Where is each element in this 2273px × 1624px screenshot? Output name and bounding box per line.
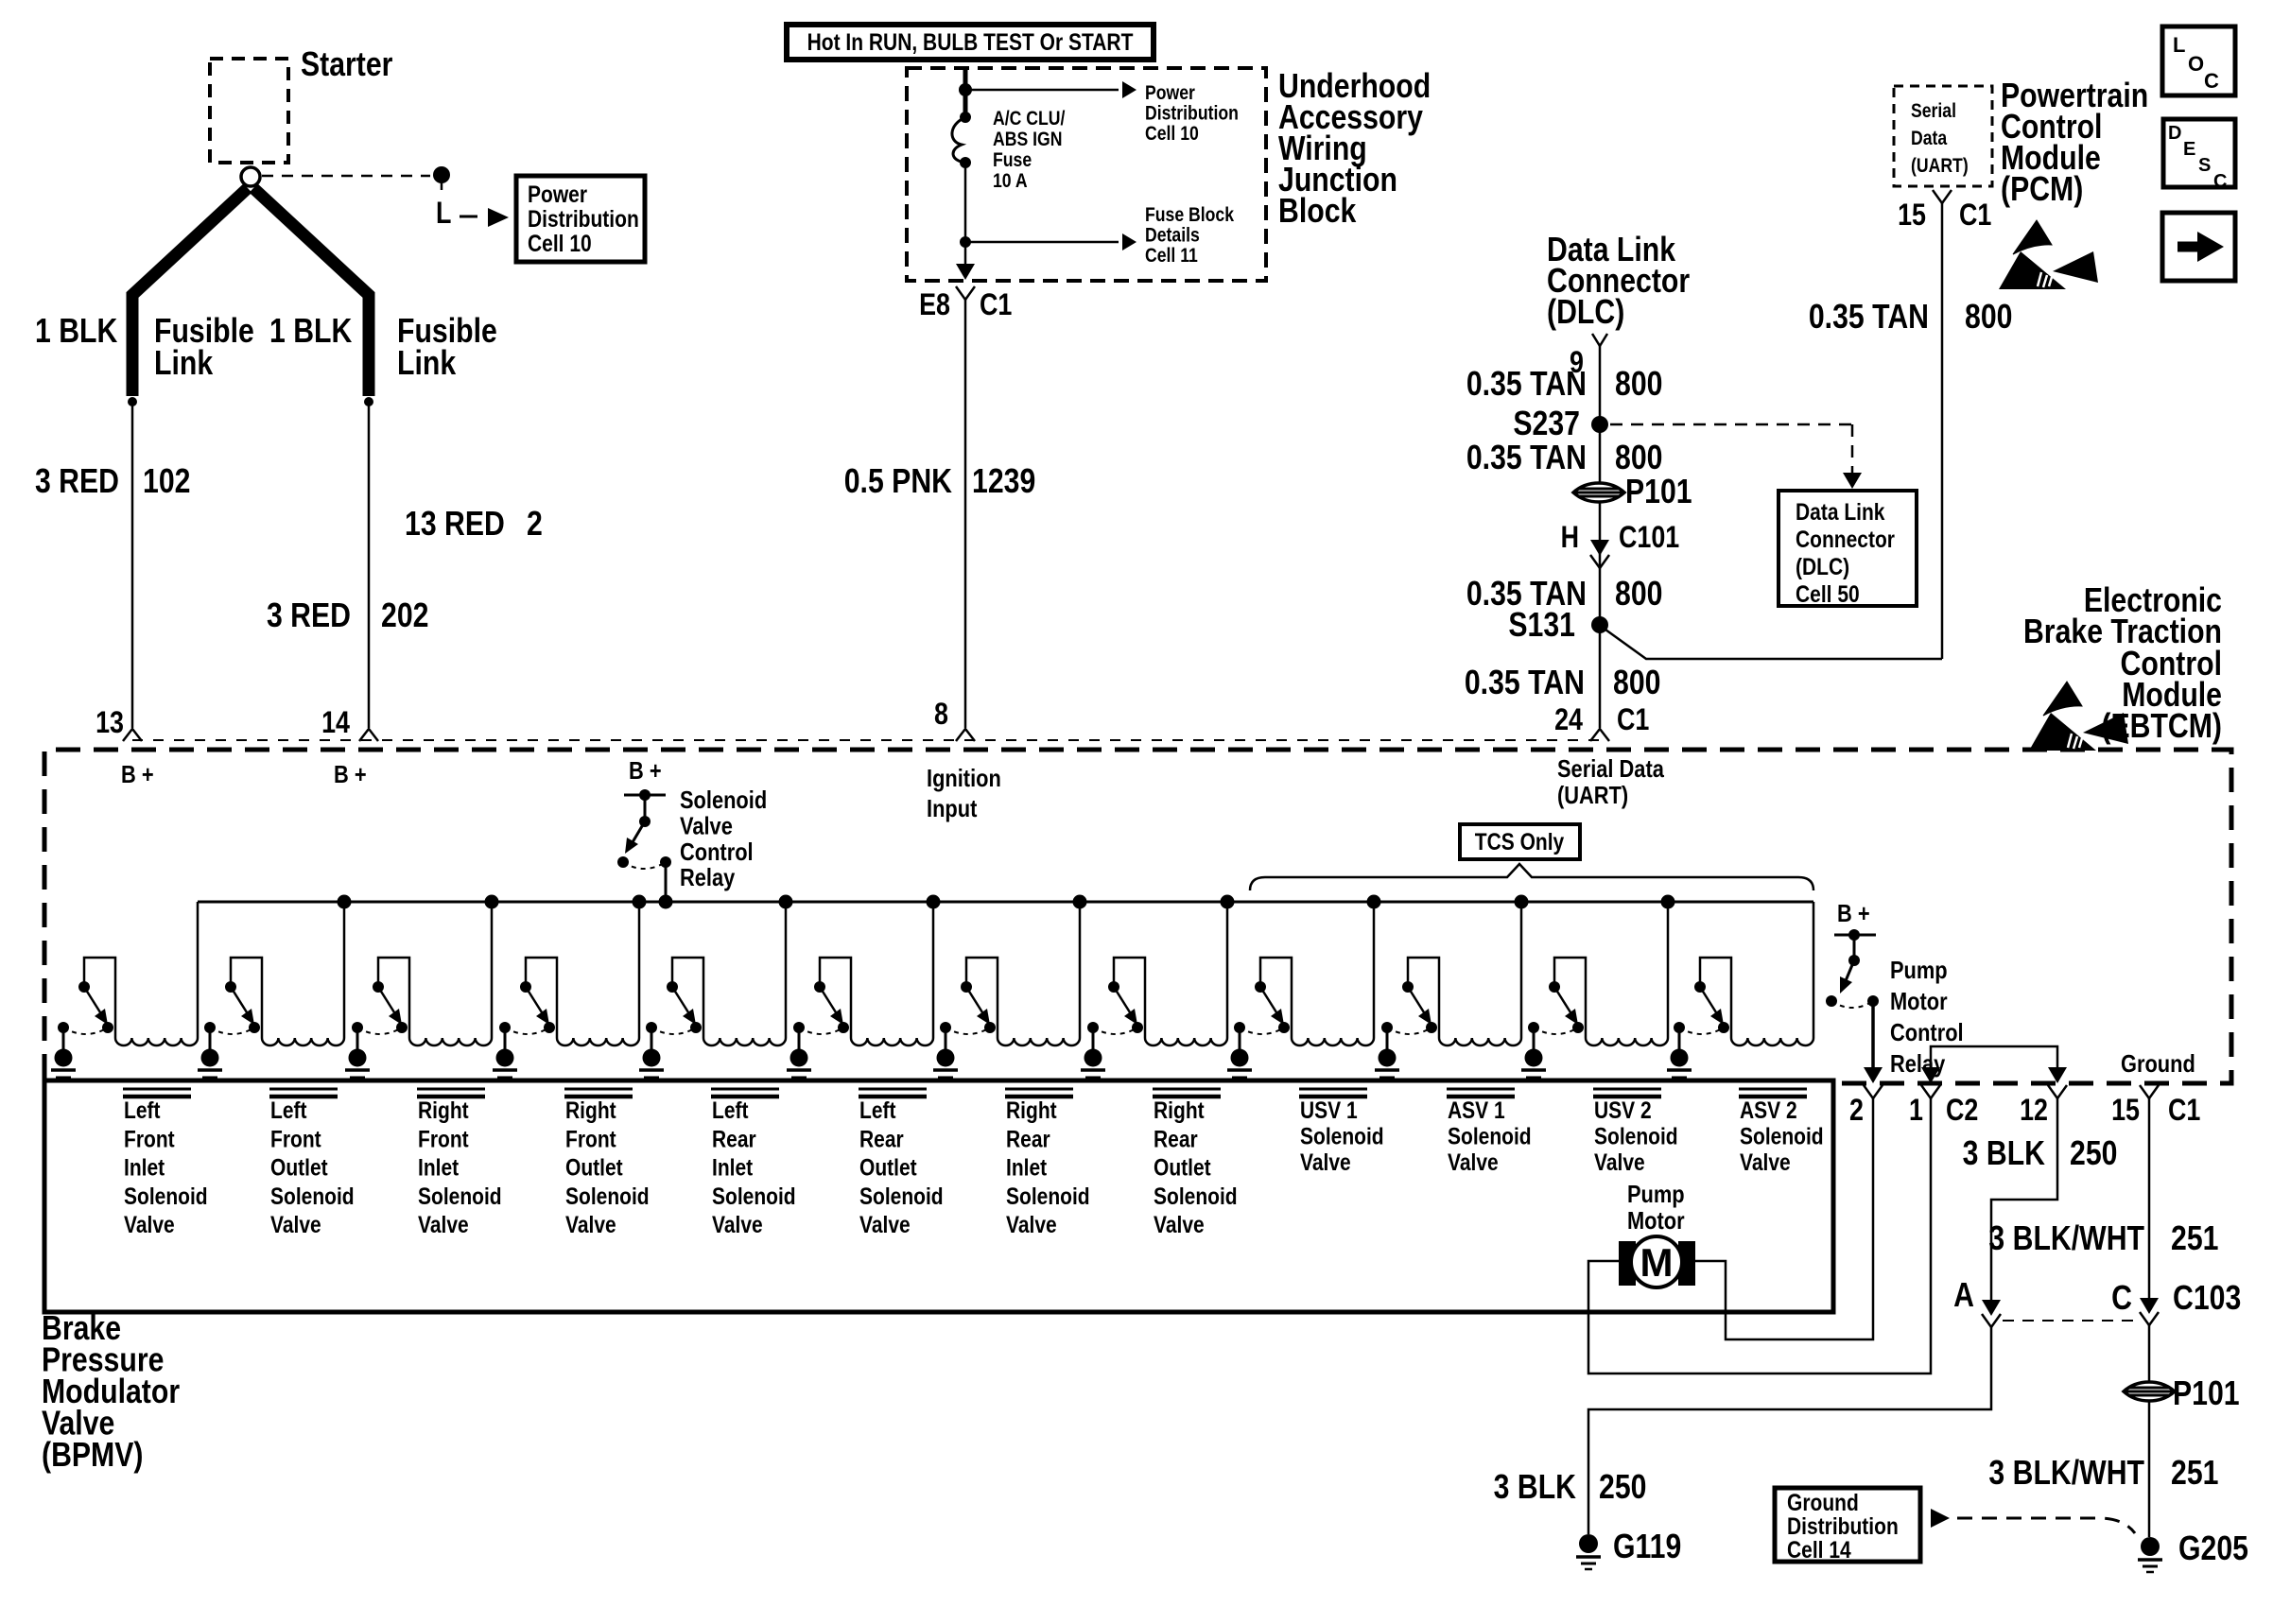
icon DESC bbox=[2163, 119, 2235, 192]
svg-text:Pump: Pump bbox=[1890, 957, 1948, 984]
svg-text:S131: S131 bbox=[1508, 607, 1575, 645]
svg-text:Solenoid: Solenoid bbox=[859, 1183, 944, 1209]
solenoid valve 5 (Left Rear Inlet) bbox=[639, 902, 786, 1078]
svg-text:1 BLK: 1 BLK bbox=[35, 313, 117, 351]
svg-text:3 BLK: 3 BLK bbox=[1494, 1469, 1576, 1507]
pin 15 C1 of PCM bbox=[1898, 190, 1991, 233]
terminal 8 (Ignition Input) bbox=[934, 698, 975, 741]
terminal 12 bbox=[2020, 1085, 2067, 1128]
svg-text:M: M bbox=[1640, 1240, 1674, 1285]
svg-text:0.35 TAN: 0.35 TAN bbox=[1466, 366, 1587, 404]
solenoid valve 12 (ASV 2) bbox=[1667, 902, 1813, 1078]
box Ground Distribution Cell 14 bbox=[1775, 1488, 1920, 1563]
wire 0.5 PNK 1239 bbox=[844, 300, 1036, 728]
solenoid valve 6 (Left Rear Outlet) bbox=[787, 902, 933, 1078]
svg-text:Hot In RUN, BULB TEST Or START: Hot In RUN, BULB TEST Or START bbox=[807, 28, 1134, 55]
svg-text:P101: P101 bbox=[1625, 474, 1692, 511]
svg-text:Solenoid: Solenoid bbox=[1154, 1183, 1238, 1209]
svg-text:15: 15 bbox=[1898, 199, 1926, 233]
svg-text:Data: Data bbox=[1911, 128, 1947, 150]
label Serial Data (UART) bbox=[1557, 755, 1664, 809]
svg-text:D: D bbox=[2168, 123, 2181, 144]
svg-text:Serial Data: Serial Data bbox=[1557, 755, 1664, 783]
svg-text:(DLC): (DLC) bbox=[1547, 294, 1624, 332]
svg-text:15: 15 bbox=[2111, 1094, 2140, 1128]
svg-text:Rear: Rear bbox=[859, 1126, 904, 1152]
terminal 2 bbox=[1849, 1085, 1883, 1128]
valve label ASV 1 Solenoid Valve bbox=[1447, 1089, 1532, 1175]
svg-text:C1: C1 bbox=[2168, 1094, 2200, 1128]
label 0.35 TAN 800 (S131-24) bbox=[1465, 665, 1661, 702]
svg-text:13: 13 bbox=[95, 706, 124, 740]
svg-text:ASV 2: ASV 2 bbox=[1740, 1097, 1797, 1123]
label B+ (terminal 13) bbox=[121, 761, 154, 788]
svg-text:B +: B + bbox=[629, 757, 662, 785]
svg-text:Solenoid: Solenoid bbox=[1594, 1123, 1678, 1149]
wire 0.35 TAN 800 (PCM serial data) bbox=[1809, 203, 2013, 659]
svg-text:Left: Left bbox=[270, 1097, 307, 1123]
connector A (C103) bbox=[1953, 1277, 2001, 1327]
svg-text:(UART): (UART) bbox=[1911, 155, 1969, 178]
svg-text:Input: Input bbox=[927, 795, 977, 822]
svg-text:ASV 1: ASV 1 bbox=[1448, 1097, 1505, 1123]
label Pump Motor bbox=[1627, 1181, 1685, 1235]
svg-text:USV 2: USV 2 bbox=[1594, 1097, 1652, 1123]
svg-text:2: 2 bbox=[1849, 1094, 1864, 1128]
svg-text:Link: Link bbox=[154, 345, 214, 383]
solenoid valve 9 (USV 1) bbox=[1227, 902, 1374, 1078]
connector C101 pin H bbox=[1561, 521, 1680, 568]
valve label Left Rear Inlet Solenoid Valve bbox=[711, 1089, 796, 1237]
svg-text:102: 102 bbox=[143, 463, 190, 501]
svg-text:Outlet: Outlet bbox=[1154, 1154, 1211, 1181]
valve label Right Rear Inlet Solenoid Valve bbox=[1005, 1089, 1090, 1237]
svg-text:Front: Front bbox=[270, 1126, 321, 1152]
connector C103 dashed link bbox=[2003, 1320, 2136, 1322]
wire terminal 2 to pump motor (+) bbox=[1695, 1098, 1873, 1339]
wire terminal 1 C2 to pump motor (-) bbox=[1588, 1098, 1931, 1373]
svg-text:Cell 10: Cell 10 bbox=[528, 230, 592, 256]
svg-text:Power: Power bbox=[528, 181, 587, 207]
valve label Right Rear Outlet Solenoid Valve bbox=[1153, 1089, 1238, 1237]
ESD symbol (PCM) bbox=[1999, 220, 2098, 289]
solenoid valve 7 (Right Rear Inlet) bbox=[933, 902, 1080, 1078]
svg-text:E8: E8 bbox=[919, 288, 950, 322]
solenoid valve 3 (Right Front Inlet) bbox=[345, 902, 492, 1078]
label Data Link Connector (DLC) bbox=[1547, 232, 1690, 332]
svg-text:Data Link: Data Link bbox=[1796, 498, 1885, 525]
svg-text:C101: C101 bbox=[1619, 521, 1679, 555]
svg-text:1 BLK: 1 BLK bbox=[269, 313, 352, 351]
svg-text:3 BLK: 3 BLK bbox=[1963, 1135, 2045, 1173]
svg-text:Rear: Rear bbox=[1006, 1126, 1050, 1152]
svg-text:Left: Left bbox=[124, 1097, 161, 1123]
label Powertrain Control Module (PCM) bbox=[2001, 78, 2148, 209]
svg-text:Block: Block bbox=[1278, 193, 1357, 231]
fusible link left (1 BLK) bbox=[128, 188, 248, 406]
svg-text:Cell 14: Cell 14 bbox=[1787, 1536, 1851, 1563]
label Underhood Accessory Wiring Junction Block bbox=[1278, 68, 1431, 231]
pass-through P101 (ground) bbox=[2124, 1375, 2240, 1413]
label Ignition Input bbox=[927, 765, 1001, 822]
svg-text:G205: G205 bbox=[2178, 1530, 2248, 1568]
starter terminal circle bbox=[241, 167, 260, 186]
svg-text:800: 800 bbox=[1965, 299, 2012, 337]
svg-text:800: 800 bbox=[1615, 576, 1662, 613]
svg-text:Valve: Valve bbox=[1448, 1149, 1499, 1175]
svg-text:Right: Right bbox=[418, 1097, 469, 1123]
svg-text:800: 800 bbox=[1613, 665, 1660, 702]
svg-text:Ignition: Ignition bbox=[927, 765, 1001, 792]
svg-text:3 BLK/WHT: 3 BLK/WHT bbox=[1988, 1220, 2144, 1258]
B+ bus wire bbox=[198, 895, 1813, 909]
underhood junction block (dashed box) bbox=[907, 68, 1266, 281]
svg-text:Valve: Valve bbox=[1154, 1211, 1205, 1237]
svg-text:Cell 50: Cell 50 bbox=[1796, 580, 1860, 607]
starter (dashed box) bbox=[210, 46, 393, 163]
svg-text:1: 1 bbox=[1909, 1094, 1923, 1128]
svg-text:O: O bbox=[2188, 52, 2204, 76]
wire 3 RED 202 / 13 RED 2 bbox=[267, 405, 543, 728]
svg-text:S: S bbox=[2198, 155, 2211, 176]
svg-text:C1: C1 bbox=[1959, 199, 1991, 233]
svg-text:Power: Power bbox=[1145, 82, 1195, 105]
svg-text:A: A bbox=[1953, 1277, 1974, 1315]
pump motor M bbox=[1619, 1236, 1695, 1287]
svg-text:Valve: Valve bbox=[1006, 1211, 1057, 1237]
wire 3 BLK 250 (A to G119) bbox=[1494, 1327, 1991, 1534]
valve label Left Front Outlet Solenoid Valve bbox=[269, 1089, 355, 1237]
svg-text:Valve: Valve bbox=[565, 1211, 616, 1237]
wire 3 BLK 250 (terminal 12 to A) bbox=[1963, 1098, 2118, 1308]
svg-text:0.35 TAN: 0.35 TAN bbox=[1809, 299, 1929, 337]
label Brake Pressure Modulator Valve (BPMV) bbox=[42, 1310, 180, 1475]
valve label USV 2 Solenoid Valve bbox=[1593, 1089, 1678, 1175]
valve label Left Rear Outlet Solenoid Valve bbox=[859, 1089, 944, 1237]
label 0.35 TAN 800 (S237-P101) bbox=[1466, 440, 1663, 477]
svg-text:Valve: Valve bbox=[680, 813, 733, 840]
svg-text:Inlet: Inlet bbox=[418, 1154, 459, 1181]
svg-text:Cell 10: Cell 10 bbox=[1145, 123, 1199, 146]
svg-text:(UART): (UART) bbox=[1557, 782, 1628, 809]
wire: ignition feed bbox=[959, 68, 972, 123]
svg-text:USV 1: USV 1 bbox=[1300, 1097, 1358, 1123]
box Data Link Connector (DLC) Cell 50 bbox=[1778, 491, 1917, 607]
fuse A/C CLU ABS IGN 10 A bbox=[952, 108, 1066, 193]
BPMV box bbox=[44, 1080, 1833, 1312]
svg-text:Rear: Rear bbox=[1154, 1126, 1198, 1152]
svg-text:Relay: Relay bbox=[1890, 1050, 1946, 1078]
svg-text:Control: Control bbox=[1890, 1019, 1964, 1046]
svg-text:Solenoid: Solenoid bbox=[1740, 1123, 1824, 1149]
svg-text:251: 251 bbox=[2171, 1220, 2218, 1258]
icon LOC bbox=[2162, 26, 2235, 95]
svg-text:Pump: Pump bbox=[1627, 1181, 1685, 1208]
svg-text:Solenoid: Solenoid bbox=[1300, 1123, 1384, 1149]
svg-text:Cell 11: Cell 11 bbox=[1145, 245, 1198, 268]
solenoid valve 11 (USV 2) bbox=[1521, 902, 1668, 1078]
svg-text:13 RED: 13 RED bbox=[405, 506, 505, 544]
wire 3 BLK/WHT 251 (15 C1 to C103) bbox=[1988, 1098, 2218, 1308]
svg-text:E: E bbox=[2183, 139, 2195, 160]
svg-text:C1: C1 bbox=[1617, 703, 1649, 737]
svg-text:ABS IGN: ABS IGN bbox=[993, 129, 1062, 151]
solenoid valve 2 (Left Front Outlet) bbox=[198, 902, 344, 1078]
svg-text:Valve: Valve bbox=[124, 1211, 175, 1237]
wire: starter L to power distribution (dashed) bbox=[262, 166, 509, 231]
svg-text:Fuse: Fuse bbox=[993, 149, 1032, 172]
svg-text:B +: B + bbox=[334, 761, 367, 788]
svg-text:Inlet: Inlet bbox=[124, 1154, 165, 1181]
terminal 13 (B+) bbox=[95, 706, 142, 741]
connector C1 line (thin dashed) bbox=[132, 739, 1600, 741]
terminal 24 C1 (Serial Data) bbox=[1554, 703, 1649, 741]
terminal 1 C2 bbox=[1909, 1085, 1978, 1128]
svg-text:2: 2 bbox=[527, 506, 543, 544]
svg-text:Starter: Starter bbox=[301, 46, 393, 84]
svg-text:Solenoid: Solenoid bbox=[124, 1183, 208, 1209]
terminal 15 C1 bbox=[2111, 1085, 2200, 1128]
svg-text:250: 250 bbox=[1599, 1469, 1646, 1507]
svg-text:Ground: Ground bbox=[2121, 1050, 2195, 1078]
svg-text:B +: B + bbox=[1837, 900, 1870, 927]
wire 3 BLK/WHT 251 (C103 to G205) bbox=[1988, 1325, 2218, 1537]
svg-text:Front: Front bbox=[418, 1126, 469, 1152]
label 0.35 TAN 800 (C101-S131) bbox=[1466, 576, 1663, 613]
DLC pin 9 terminal bbox=[1570, 334, 1607, 380]
svg-text:Motor: Motor bbox=[1627, 1207, 1685, 1235]
svg-text:Distribution: Distribution bbox=[1145, 102, 1239, 125]
svg-text:Front: Front bbox=[124, 1126, 175, 1152]
svg-text:C: C bbox=[2213, 171, 2227, 192]
solenoid valve 4 (Right Front Outlet) bbox=[493, 902, 639, 1078]
fusible link right (1 BLK) bbox=[253, 188, 373, 406]
valve label Left Front Inlet Solenoid Valve bbox=[123, 1089, 208, 1237]
svg-text:1239: 1239 bbox=[972, 463, 1035, 501]
svg-text:C1: C1 bbox=[980, 288, 1012, 322]
svg-text:Right: Right bbox=[565, 1097, 616, 1123]
connector E8 C1 bbox=[919, 264, 1012, 322]
svg-text:B +: B + bbox=[121, 761, 154, 788]
pump motor control relay bbox=[1826, 900, 1964, 1083]
svg-text:0.5 PNK: 0.5 PNK bbox=[844, 463, 952, 501]
solenoid valve 8 (Right Rear Outlet) bbox=[1081, 902, 1227, 1078]
svg-text:251: 251 bbox=[2171, 1455, 2218, 1493]
splice S237 bbox=[1513, 406, 1608, 443]
valve label Right Front Inlet Solenoid Valve bbox=[417, 1089, 502, 1237]
svg-text:Valve: Valve bbox=[270, 1211, 321, 1237]
svg-text:Ground: Ground bbox=[1787, 1489, 1859, 1515]
svg-text:202: 202 bbox=[381, 597, 428, 635]
wire S131 to PCM pin 15 bbox=[1605, 630, 1942, 659]
box TCS Only bbox=[1460, 824, 1580, 859]
svg-text:P101: P101 bbox=[2173, 1375, 2240, 1413]
svg-text:3 RED: 3 RED bbox=[35, 463, 119, 501]
svg-text:Link: Link bbox=[397, 345, 457, 383]
ground G119 bbox=[1576, 1529, 1681, 1569]
TCS brace bbox=[1250, 864, 1813, 890]
svg-text:Valve: Valve bbox=[1594, 1149, 1645, 1175]
svg-text:H: H bbox=[1561, 521, 1579, 555]
svg-text:Motor: Motor bbox=[1890, 988, 1948, 1015]
ground bridge (1 C2 to 12) bbox=[1921, 1046, 2195, 1083]
box Hot In RUN BULB TEST Or START bbox=[787, 25, 1154, 60]
svg-text:Outlet: Outlet bbox=[565, 1154, 623, 1181]
svg-text:L: L bbox=[2173, 33, 2185, 57]
svg-text:3 BLK/WHT: 3 BLK/WHT bbox=[1988, 1455, 2144, 1493]
svg-text:TCS Only: TCS Only bbox=[1475, 828, 1565, 855]
svg-text:Control: Control bbox=[680, 838, 754, 866]
label B+ (terminal 14) bbox=[334, 761, 367, 788]
svg-text:Outlet: Outlet bbox=[859, 1154, 917, 1181]
svg-text:L: L bbox=[436, 197, 451, 231]
svg-text:Inlet: Inlet bbox=[712, 1154, 753, 1181]
svg-text:(DLC): (DLC) bbox=[1796, 553, 1849, 579]
svg-text:24: 24 bbox=[1554, 703, 1583, 737]
dashed arrow to ground distribution bbox=[1931, 1509, 2135, 1533]
svg-text:Left: Left bbox=[712, 1097, 749, 1123]
svg-text:Valve: Valve bbox=[418, 1211, 469, 1237]
svg-text:Distribution: Distribution bbox=[528, 205, 639, 232]
svg-text:0.35 TAN: 0.35 TAN bbox=[1466, 440, 1587, 477]
svg-text:Details: Details bbox=[1145, 224, 1200, 247]
icon arrow bbox=[2162, 213, 2235, 281]
svg-text:Fuse Block: Fuse Block bbox=[1145, 204, 1234, 227]
svg-text:C: C bbox=[2204, 69, 2219, 93]
pass-through P101 bbox=[1573, 474, 1692, 511]
solenoid valve control relay bbox=[617, 757, 767, 902]
wire 3 RED 102 bbox=[35, 405, 190, 728]
svg-text:Left: Left bbox=[859, 1097, 896, 1123]
label 1 BLK / Fusible Link (right) bbox=[269, 313, 497, 383]
svg-text:Inlet: Inlet bbox=[1006, 1154, 1047, 1181]
svg-text:250: 250 bbox=[2070, 1135, 2117, 1173]
svg-text:C2: C2 bbox=[1946, 1094, 1978, 1128]
svg-text:C103: C103 bbox=[2173, 1280, 2241, 1318]
terminal 14 (B+) bbox=[321, 706, 378, 741]
svg-text:Solenoid: Solenoid bbox=[712, 1183, 796, 1209]
svg-text:Outlet: Outlet bbox=[270, 1154, 328, 1181]
EBTCM dashed box bbox=[44, 750, 2231, 1083]
dashed route S237 to DLC cell 50 bbox=[1610, 424, 1862, 489]
svg-text:Front: Front bbox=[565, 1126, 616, 1152]
svg-text:G119: G119 bbox=[1613, 1529, 1681, 1566]
ground G205 bbox=[2138, 1530, 2248, 1572]
solenoid valve 1 (Left Front Inlet) bbox=[51, 902, 198, 1078]
svg-text:S237: S237 bbox=[1513, 406, 1580, 443]
wire fuse to cell 11 tap bbox=[960, 163, 971, 268]
svg-text:800: 800 bbox=[1615, 440, 1662, 477]
svg-text:Solenoid: Solenoid bbox=[1448, 1123, 1532, 1149]
box Power Distribution Cell 10 bbox=[516, 176, 645, 262]
svg-text:Rear: Rear bbox=[712, 1126, 756, 1152]
svg-text:Solenoid: Solenoid bbox=[565, 1183, 650, 1209]
svg-text:Right: Right bbox=[1006, 1097, 1057, 1123]
svg-text:12: 12 bbox=[2020, 1094, 2048, 1128]
valve label USV 1 Solenoid Valve bbox=[1299, 1089, 1384, 1175]
ESD symbol (EBTCM) bbox=[2029, 682, 2128, 751]
svg-text:10 A: 10 A bbox=[993, 170, 1028, 193]
serial data (UART) dashed box bbox=[1894, 86, 1992, 186]
svg-text:Right: Right bbox=[1154, 1097, 1205, 1123]
svg-text:Valve: Valve bbox=[859, 1211, 911, 1237]
svg-text:A/C CLU/: A/C CLU/ bbox=[993, 108, 1066, 130]
svg-text:(PCM): (PCM) bbox=[2001, 171, 2083, 209]
solenoid valve 10 (ASV 1) bbox=[1375, 902, 1521, 1078]
wire 0.35 TAN 800 (DLC to S237) bbox=[1466, 346, 1663, 728]
svg-text:Serial: Serial bbox=[1911, 100, 1956, 123]
valve label Right Front Outlet Solenoid Valve bbox=[564, 1089, 650, 1237]
svg-text:800: 800 bbox=[1615, 366, 1662, 404]
valve label ASV 2 Solenoid Valve bbox=[1739, 1089, 1824, 1175]
svg-text:C: C bbox=[2111, 1280, 2132, 1318]
svg-text:(BPMV): (BPMV) bbox=[42, 1437, 143, 1475]
svg-text:0.35 TAN: 0.35 TAN bbox=[1465, 665, 1585, 702]
label 1 BLK / Fusible Link (left) bbox=[35, 313, 254, 383]
svg-text:Solenoid: Solenoid bbox=[270, 1183, 355, 1209]
svg-text:Valve: Valve bbox=[1740, 1149, 1791, 1175]
svg-text:Solenoid: Solenoid bbox=[418, 1183, 502, 1209]
svg-text:Solenoid: Solenoid bbox=[680, 786, 767, 814]
svg-text:Connector: Connector bbox=[1796, 526, 1895, 552]
arrow to Fuse Block Details Cell 11 bbox=[965, 204, 1234, 268]
svg-text:Valve: Valve bbox=[1300, 1149, 1351, 1175]
label Electronic Brake Traction Control Module (EBTCM) bbox=[2023, 582, 2222, 746]
svg-text:Solenoid: Solenoid bbox=[1006, 1183, 1090, 1209]
svg-text:Distribution: Distribution bbox=[1787, 1512, 1899, 1539]
svg-text:14: 14 bbox=[321, 706, 350, 740]
svg-text:Relay: Relay bbox=[680, 864, 736, 891]
svg-text:Valve: Valve bbox=[712, 1211, 763, 1237]
arrow to Power Distribution Cell 10 bbox=[965, 81, 1239, 145]
svg-text:8: 8 bbox=[934, 698, 948, 732]
svg-text:3 RED: 3 RED bbox=[267, 597, 351, 635]
connector C C103 bbox=[2111, 1280, 2241, 1325]
splice S131 bbox=[1508, 607, 1608, 645]
